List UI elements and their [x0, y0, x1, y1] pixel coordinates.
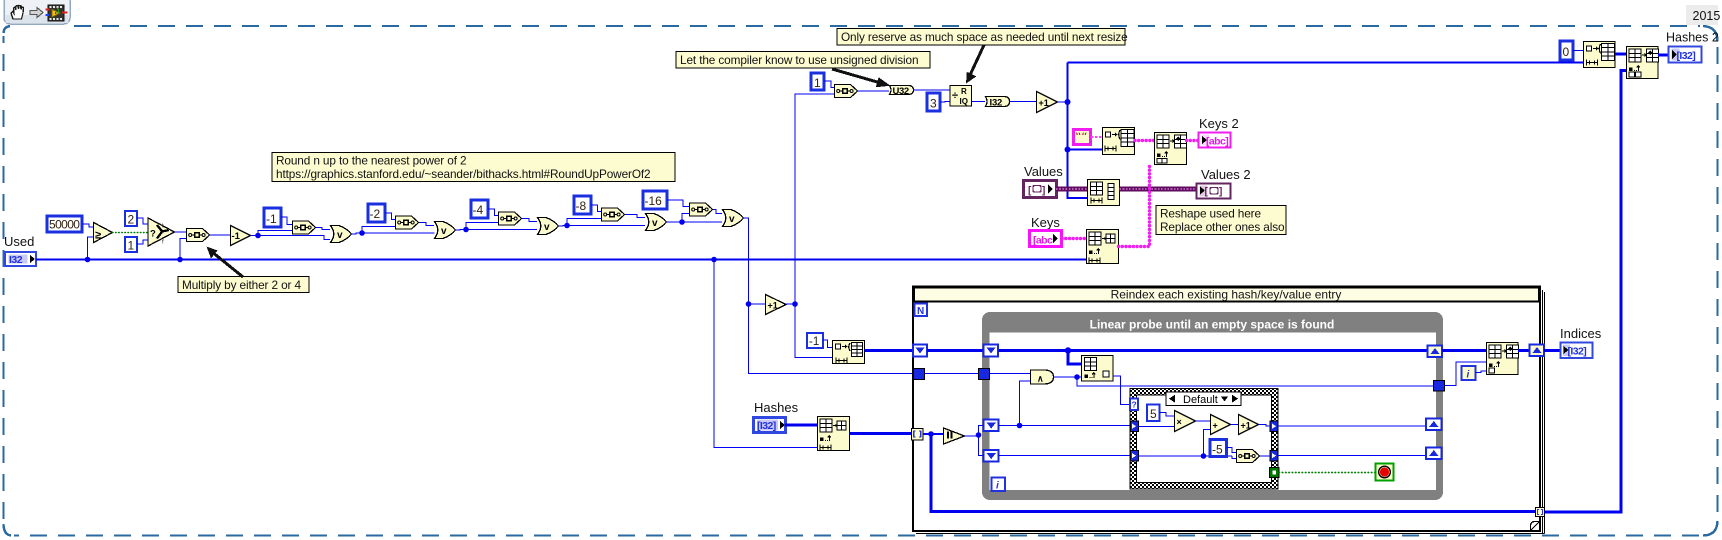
wire: probe SR wire up to and gate lower input: [1020, 381, 1031, 426]
select node: [148, 218, 175, 246]
junction after OR 2: [463, 227, 469, 233]
wire: increment output up to top shift pentagon: [786, 94, 834, 304]
junction hashes branch: [928, 431, 934, 437]
wire: Values to reshape array (braided): [1056, 187, 1087, 192]
constant -8 (shift stage 4): [574, 196, 591, 214]
junction on Used wire feeding >=: [85, 257, 91, 263]
case selector label: [1166, 392, 1241, 406]
svg-text:+: +: [1213, 421, 1218, 431]
wire: junction up to pentagon 1 lower input: [258, 231, 292, 236]
comment: Reshape used here: [1156, 206, 1286, 235]
indicator Indices: [1560, 326, 1602, 358]
initialize array node (hashes 2): [1584, 42, 1616, 68]
multiply node: [1175, 411, 1196, 432]
wire: boolean dotted to loop condition: [1279, 472, 1375, 474]
wire: SR run for to while: [927, 349, 983, 352]
svg-text:1: 1: [814, 76, 821, 90]
wire: junction up to shift pentagon lower input: [180, 239, 186, 260]
junction after decrement: [255, 233, 261, 239]
control Keys: [1030, 215, 1062, 247]
wire: boolean >= to select (green dotted): [113, 232, 149, 234]
svg-text:∧: ∧: [1037, 374, 1044, 384]
wire: long run to initialize array (hashes 2) dim input: [1068, 62, 1584, 64]
wire: OR5 value down to for loop tunnel: [749, 304, 914, 374]
wire: OR 2 output to stage 3: [456, 229, 538, 232]
wire: SR branch down into index array: [1068, 351, 1081, 365]
junction on Used wire feeding Hashes reshape dim: [711, 257, 717, 263]
wire: -8 const to pentagon 4: [591, 205, 601, 212]
junction at increment output: [792, 301, 798, 307]
wire: vertical distribution x=1067: [1068, 63, 1088, 199]
wire: 1 to select f input: [137, 240, 148, 244]
wire: junction up to probe SR: [979, 426, 984, 436]
wire: array size to probe shift registers: [965, 435, 979, 437]
wire: 2 to select t input: [137, 218, 148, 224]
replace array subset node (keys 2): [1155, 133, 1187, 165]
toolbar hand icon: [11, 6, 24, 20]
wire: pentagon to U32 conversion: [858, 90, 889, 92]
control Used (I32): [4, 234, 36, 266]
junction at increment input: [746, 301, 752, 307]
year label 2015: [1686, 5, 1720, 25]
junction after OR 4: [679, 219, 685, 225]
indexing tunnel (for loop, hashes in): [912, 429, 924, 441]
svg-text:IQ: IQ: [960, 97, 968, 106]
wire: -5 to shift pentagon (case): [1227, 448, 1237, 453]
wire: -1 to initialize array element input: [823, 340, 832, 348]
wire: Keys to reshape array (string array dots): [1062, 237, 1086, 240]
toolbar: [4, 0, 70, 24]
while loop frame: [982, 312, 1443, 500]
wire: value tunnel run: [1139, 455, 1233, 457]
svg-text:1: 1: [128, 239, 135, 253]
shift register up arrow (while, probe): [1426, 419, 1442, 431]
wire: OR 5 output down to increment input: [744, 218, 766, 304]
wire: replace subset to for loop out tunnel: [1518, 349, 1529, 352]
wire: junction up to pentagon 3 lower input: [466, 223, 498, 230]
svg-text:i: i: [996, 481, 999, 492]
svg-text:-8: -8: [576, 199, 587, 213]
wire: pentagon 1 to OR 1 upper input: [316, 228, 330, 230]
wire: 50000 to >= upper input: [82, 224, 93, 227]
shift register down arrow (while, hash value): [984, 450, 999, 462]
decrement node: [231, 226, 251, 246]
iteration terminal i (for loop): [1462, 366, 1476, 381]
wire: value out tunnel to up arrow SR: [1278, 455, 1426, 457]
svg-text:-1: -1: [809, 336, 819, 348]
wire: probe tunnel to multiply: [1139, 426, 1175, 428]
wire: pentagon 4 to OR 4 upper input: [625, 215, 645, 218]
toolbar arrow icon: [30, 8, 43, 18]
OR gate 3: [538, 218, 559, 235]
comment: Round n up to the nearest power of 2: [272, 153, 675, 182]
wire: Used main horizontal run: [36, 259, 1086, 261]
wire: replace subset to Keys 2 indicator: [1187, 139, 1199, 142]
junction value to add: [1201, 453, 1207, 459]
wire: pentagon 0 to decrement: [210, 234, 230, 236]
constant -5: [1210, 440, 1227, 457]
wire: 5 to multiply: [1160, 413, 1175, 417]
wire: 1 const to top shift pentagon: [824, 81, 834, 88]
annotation arrow to pentagon 0: [207, 247, 244, 278]
indexing tunnel (for loop, hashes out bottom): [1536, 508, 1545, 517]
constant empty string: [1074, 130, 1091, 145]
wire: OR 3 output to stage 4: [559, 225, 646, 228]
wire: junction down to value SR: [979, 435, 984, 456]
junction feeding initialize array (keys 2): [1065, 147, 1071, 153]
shift pentagon 2: [396, 216, 419, 229]
wire: junction up to add lower input: [1204, 430, 1211, 457]
svg-text:I32: I32: [990, 97, 1003, 108]
comment: Only reserve as much space as needed until next resize: [837, 29, 1128, 46]
constant -4 (shift stage 3): [471, 200, 488, 218]
coercion tag U32: [890, 86, 914, 97]
svg-text:I32: I32: [9, 254, 23, 266]
wire: pentagon 3 to OR 3 upper input: [522, 219, 537, 222]
wire: -2 const to pentagon 2: [385, 213, 395, 220]
wire: initialize array to replace subset (hashes 2): [1615, 53, 1626, 56]
annotation arrow to U32 tag: [832, 69, 891, 87]
wire: index array element to case selector: [1113, 376, 1130, 405]
wire: Hashes control to reshape: [785, 424, 817, 427]
case tunnel in (value): [1131, 451, 1139, 462]
for loop frame: [913, 287, 1545, 534]
increment node (case): [1239, 415, 1259, 435]
OR gate 2: [435, 222, 456, 239]
shift pentagon (case): [1237, 450, 1260, 463]
junction reserve count: [1065, 99, 1071, 105]
svg-text:0: 0: [1563, 45, 1570, 59]
svg-text:+1: +1: [1039, 98, 1049, 108]
wire: empty string to initialize array (keys 2): [1091, 136, 1102, 138]
array size node: [944, 428, 965, 444]
svg-text:Replace other ones also: Replace other ones also: [1160, 220, 1285, 234]
svg-text:2: 2: [128, 213, 135, 227]
shift pentagon top (reserve): [835, 85, 858, 98]
svg-text:≥: ≥: [95, 230, 101, 242]
svg-text:+1: +1: [768, 301, 778, 311]
quotient-remainder node: [950, 86, 972, 107]
wire: keys reshape output to replace subset (up the pink column): [1119, 166, 1150, 247]
svg-text:Linear probe until an empty sp: Linear probe until an empty space is fou…: [1090, 318, 1335, 332]
svg-text:5: 5: [1150, 407, 1157, 421]
svg-text:Used: Used: [4, 234, 34, 249]
wire: hashes reshape to for loop indexing tunnel: [850, 432, 912, 435]
constant 5: [1147, 405, 1160, 422]
wire: add to increment: [1231, 424, 1239, 426]
constant 1 (top chain): [811, 73, 824, 90]
annotation arrow to quotient-remainder: [966, 45, 984, 84]
svg-text:-16: -16: [645, 194, 663, 208]
svg-text:50000: 50000: [49, 218, 80, 232]
constant 0: [1560, 41, 1573, 60]
initialize array node (indices): [833, 341, 865, 364]
shift pentagon 5: [690, 203, 713, 216]
initialize array node (keys 2): [1103, 128, 1135, 155]
svg-text:Reindex each existing hash/key: Reindex each existing hash/key/value ent…: [1111, 288, 1342, 302]
svg-text:[abc: [abc: [1033, 235, 1053, 247]
OR gate 4: [646, 214, 667, 231]
tunnel (while, new value out): [1434, 381, 1445, 392]
svg-text:Hashes 2: Hashes 2: [1666, 31, 1719, 45]
svg-text:+1: +1: [1241, 421, 1251, 431]
while loop iteration terminal i: [992, 478, 1006, 492]
toolbar VI film icon: [46, 5, 68, 21]
wire: initialize array to replace subset (keys 2): [1135, 139, 1154, 142]
svg-text:?: ?: [1132, 400, 1137, 410]
svg-text:2015: 2015: [1693, 9, 1721, 23]
wire: +1 to vertical distribution node: [1058, 101, 1068, 103]
add node: [1211, 415, 1231, 435]
wire: probe SR to case tunnel: [999, 425, 1132, 427]
svg-text:[I32]: [I32]: [1677, 50, 1696, 62]
svg-text:R: R: [961, 87, 967, 96]
svg-text:]: ]: [1219, 187, 1222, 198]
constant -2 (shift stage 2): [368, 204, 385, 222]
junction array size output: [976, 432, 982, 438]
coercion tag I32: [986, 97, 1010, 109]
wire: pentagon 2 to OR 2 upper input: [419, 223, 434, 226]
OR gate 5: [723, 210, 744, 227]
and gate: [1031, 370, 1054, 384]
wire: new value tunnel to replace subset element input: [1445, 362, 1487, 386]
for loop count terminal N: [915, 304, 928, 318]
wire: capacity for to while tunnel: [925, 373, 979, 375]
wire: for loop out to Indices indicator: [1544, 349, 1560, 352]
svg-text:Default: Default: [1183, 394, 1218, 406]
svg-text:[abc]: [abc]: [1206, 136, 1228, 148]
wire: multiply to add: [1196, 420, 1211, 422]
svg-text:3: 3: [930, 97, 937, 111]
constant 50000: [47, 216, 82, 232]
wire: replace subset to Hashes 2 indicator: [1658, 54, 1668, 57]
junction SR to index array: [1065, 347, 1071, 353]
indicator Hashes 2: [1666, 31, 1719, 63]
wire: hashes tunnel to array size node: [923, 433, 943, 435]
constant 1: [125, 237, 137, 253]
svg-text:i: i: [1467, 370, 1470, 381]
svg-text:-2: -2: [370, 207, 381, 221]
wire: value SR to case tunnel: [999, 455, 1132, 457]
shift register up arrow (while, value): [1426, 448, 1442, 460]
wire: and gate output: [1054, 376, 1082, 378]
tunnel (for loop, capacity): [914, 369, 925, 380]
case tunnel out (value): [1270, 451, 1278, 462]
constant 3: [927, 93, 940, 111]
case tunnel out (probe): [1270, 421, 1278, 432]
wire: value run into pentagon lower input: [1232, 456, 1236, 459]
svg-text:Round n up to the nearest powe: Round n up to the nearest power of 2: [276, 154, 466, 168]
wire: OR 4 output to stage 5: [667, 221, 723, 223]
tunnel (while, capacity): [979, 369, 990, 380]
case boolean tunnel: [1270, 468, 1280, 478]
junction after OR 3: [564, 223, 570, 229]
wire: and output down along case top to right tunnel: [1077, 377, 1434, 386]
control Values: [1024, 164, 1064, 198]
wire: junction up to pentagon 2 lower input: [362, 227, 395, 234]
svg-text:https://graphics.stanford.edu/: https://graphics.stanford.edu/~seander/b…: [276, 167, 650, 181]
svg-text:Hashes: Hashes: [754, 400, 799, 415]
svg-text:÷: ÷: [952, 90, 958, 102]
wire: 0 to initialize array element: [1573, 50, 1583, 52]
wire: pentagon 5 to OR 5 upper input: [713, 210, 722, 214]
svg-text:Indices: Indices: [1560, 326, 1602, 341]
svg-text:Reshape used here: Reshape used here: [1160, 207, 1261, 221]
shift register down arrow (for loop, indices array): [913, 345, 927, 357]
svg-text:-5: -5: [1212, 443, 1223, 457]
OR gate 1: [331, 226, 352, 243]
shift register down arrow (while, indices): [984, 345, 999, 357]
svg-text:Only reserve as much space as: Only reserve as much space as needed unt…: [841, 30, 1128, 44]
junction probe to and: [1017, 423, 1023, 429]
wire: select to shift pentagon 0: [175, 231, 187, 233]
svg-text:Multiply by either 2 or 4: Multiply by either 2 or 4: [182, 278, 302, 292]
comment: Multiply by either 2 or 4: [178, 277, 309, 293]
wire: OR 1 output to stage 2: [352, 233, 435, 234]
index array node: [1082, 356, 1114, 382]
wire: i to replace subset index input: [1476, 371, 1487, 373]
junction and output: [1074, 374, 1080, 380]
wire: hashes out to replace subset (top right): [1545, 71, 1627, 513]
wire: quotient to I32 tag: [972, 101, 986, 103]
shift register up arrow (while, indices): [1428, 346, 1443, 358]
wire: U32 to quotient-remainder x input: [914, 89, 951, 91]
junction after OR 1: [359, 230, 365, 236]
wire: pentagon to value out tunnel: [1260, 455, 1270, 457]
reshape array node (keys): [1087, 230, 1119, 264]
shift pentagon 4: [602, 208, 625, 221]
case structure frame: [1130, 389, 1278, 490]
control Hashes: [754, 400, 799, 433]
wire: capacity tunnel to and gate: [990, 373, 1031, 375]
reshape array node (hashes): [818, 417, 850, 451]
wire: -1 const to pentagon 1: [281, 217, 292, 225]
wire: junction to initialize array (keys 2) dim input: [1068, 149, 1103, 151]
indicator Values 2: [1197, 167, 1251, 199]
constant 2: [125, 211, 137, 227]
wire: junction down to Hashes reshape lower input: [714, 260, 817, 448]
svg-text:U32: U32: [893, 86, 909, 97]
case tunnel in (probe): [1131, 421, 1139, 432]
shift register down arrow (while, probe index): [984, 420, 999, 432]
wire: reshape to Values 2 (braided): [1120, 187, 1197, 192]
svg-text:Keys: Keys: [1031, 215, 1060, 230]
for loop page curl: [1531, 522, 1540, 531]
replace array subset node (hashes 2): [1627, 47, 1659, 79]
shift pentagon 1: [293, 221, 316, 234]
wire: increment to probe out tunnel: [1259, 425, 1271, 427]
svg-text:?: ?: [150, 229, 156, 240]
constant -1 (indices init): [807, 333, 823, 348]
wire: SR indices out to replace subset: [1442, 349, 1486, 352]
svg-text:N: N: [917, 306, 924, 317]
wire: SR indices run across while loop: [999, 349, 1428, 352]
wire: hashes down to bottom run and out tunnel: [931, 434, 1536, 512]
increment node (+1 capacity): [766, 295, 787, 315]
shift pentagon 3: [499, 212, 522, 225]
svg-text:-1: -1: [266, 212, 277, 226]
wire: -16 const to pentagon 5: [667, 200, 689, 207]
svg-text:Values 2: Values 2: [1201, 167, 1251, 182]
constant -1 (shift stage 1): [264, 208, 281, 227]
svg-text:-1: -1: [232, 231, 241, 242]
wire: I32 tag to +1: [1010, 101, 1037, 103]
svg-text:Keys 2: Keys 2: [1199, 116, 1239, 131]
for loop subdiagram label: [914, 288, 1539, 302]
wire: junction up to pentagon 4 lower input: [567, 219, 601, 226]
shift pentagon 0 (multiply by 2 or 4): [187, 229, 210, 242]
svg-text:[I32]: [I32]: [757, 420, 776, 432]
reshape array node (values): [1088, 180, 1120, 206]
wire: -4 const to pentagon 3: [488, 209, 498, 216]
constant -16 (shift stage 5): [643, 191, 667, 209]
tunnel up arrow (for loop, indices out): [1530, 345, 1545, 357]
svg-text:[I32]: [I32]: [1568, 346, 1587, 358]
wire: decrement to OR stage 1 value run: [251, 236, 331, 240]
wire: junction up to pentagon 5 lower input: [682, 214, 689, 223]
comment: Let the compiler know to use unsigned division: [676, 52, 930, 69]
svg-text:Values: Values: [1024, 164, 1063, 179]
svg-text:Let the compiler know to use u: Let the compiler know to use unsigned di…: [680, 53, 918, 67]
increment node (reserve +1): [1037, 92, 1058, 113]
wire: probe out tunnel to up arrow SR: [1278, 425, 1426, 427]
svg-text:]: ]: [1042, 186, 1045, 197]
junction on Used wire feeding shift chain: [177, 257, 183, 263]
wire: junction up to >= lower input: [88, 237, 94, 260]
case selector terminal ?: [1130, 399, 1138, 411]
wire: increment output down to initialize array (indices) dim input: [795, 304, 832, 358]
while loop condition stop button: [1376, 464, 1394, 481]
indicator Keys 2: [1199, 116, 1239, 148]
replace array subset node (indices): [1487, 343, 1519, 375]
wire: 3 const to quotient-remainder y input: [940, 101, 950, 104]
svg-text:×: ×: [1177, 417, 1182, 427]
comparison >= node: [94, 223, 113, 243]
svg-text:-4: -4: [473, 203, 484, 217]
wire: initialize array (indices) to for loop shift register: [865, 349, 914, 352]
